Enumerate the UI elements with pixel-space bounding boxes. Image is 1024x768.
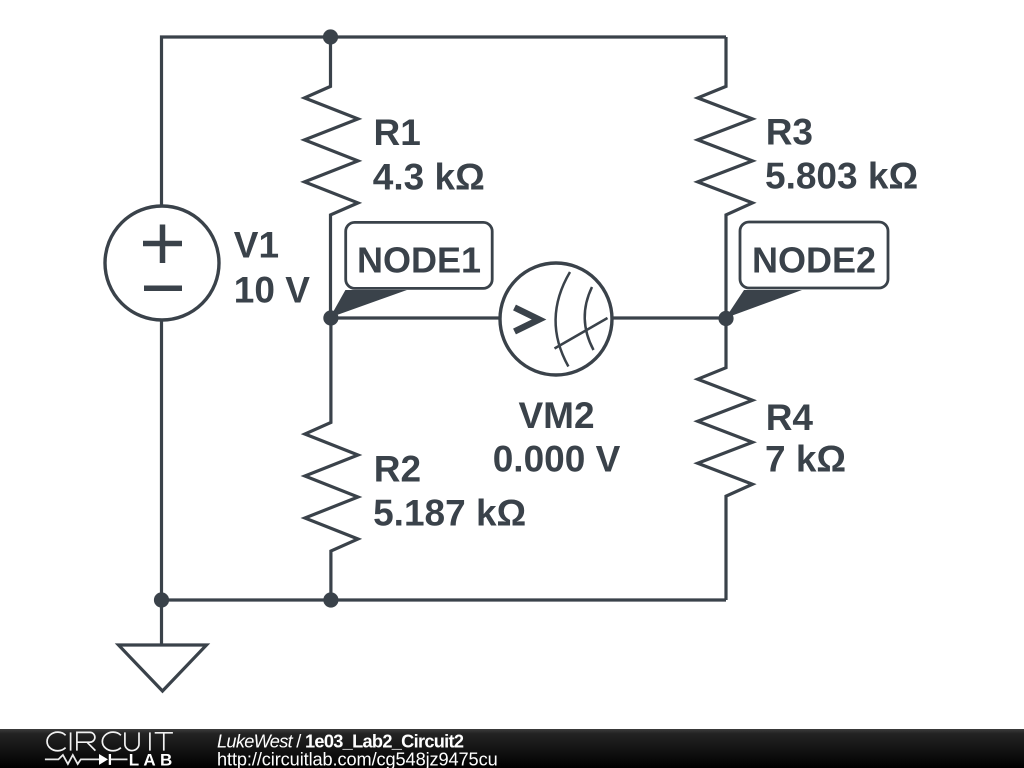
footer bar [0,729,1024,768]
svg-text:4.3 kΩ: 4.3 kΩ [373,156,485,197]
wire NODE1 to voltmeter [331,316,499,319]
logo CIRCUIT wordmark [47,732,173,751]
svg-text:R4: R4 [766,397,814,438]
footer url [217,750,498,768]
svg-text:R3: R3 [766,112,813,153]
wire V1 bottom lead [160,319,163,600]
svg-text:VM2: VM2 [518,395,594,436]
svg-text:0.000 V: 0.000 V [493,438,621,479]
ground [119,600,207,691]
node NODE1 junction dot [323,310,338,325]
node junction bottom left [154,592,169,607]
node junction top of R1 [323,29,338,44]
wire top rail [162,37,727,206]
svg-text:LAB: LAB [129,751,177,768]
logo LAB [129,751,177,768]
svg-text:http://circuitlab.com/cg548jz9: http://circuitlab.com/cg548jz9475cu [217,750,498,768]
label R2 5.187 kΩ [373,449,526,534]
voltage source V1 [105,206,219,320]
svg-text:V1: V1 [234,224,279,265]
svg-text:LukeWest / 1e03_Lab2_Circuit2: LukeWest / 1e03_Lab2_Circuit2 [217,731,464,751]
label R3 5.803 kΩ [765,112,918,197]
svg-text:10 V: 10 V [234,269,310,310]
logo resistor-diode squiggle [45,755,128,764]
svg-text:5.187 kΩ: 5.187 kΩ [373,492,526,533]
callout NODE1 [330,222,492,317]
svg-text:R2: R2 [374,449,421,490]
resistor R3 [698,37,753,319]
svg-text:5.803 kΩ: 5.803 kΩ [765,156,918,197]
node NODE2 junction dot [718,311,733,326]
label VM2 0.000 V [493,395,621,479]
logo diode [99,754,110,765]
resistor R4 [698,319,753,601]
footer title [217,731,464,751]
label R4 7 kΩ [765,397,846,480]
callout NODE2 [726,222,889,318]
svg-text:NODE1: NODE1 [357,240,481,281]
svg-text:7 kΩ: 7 kΩ [765,439,846,480]
voltmeter VM2 [500,263,612,375]
svg-text:NODE2: NODE2 [752,240,876,281]
resistor R2 [305,318,358,600]
wire voltmeter to NODE2 [613,316,726,319]
label V1 10 V [234,224,310,310]
resistor R1 [305,37,359,318]
wire bottom rail [162,598,727,601]
label R1 4.3 kΩ [373,112,485,197]
node junction bottom of R2 [323,592,338,607]
svg-text:R1: R1 [374,112,421,153]
